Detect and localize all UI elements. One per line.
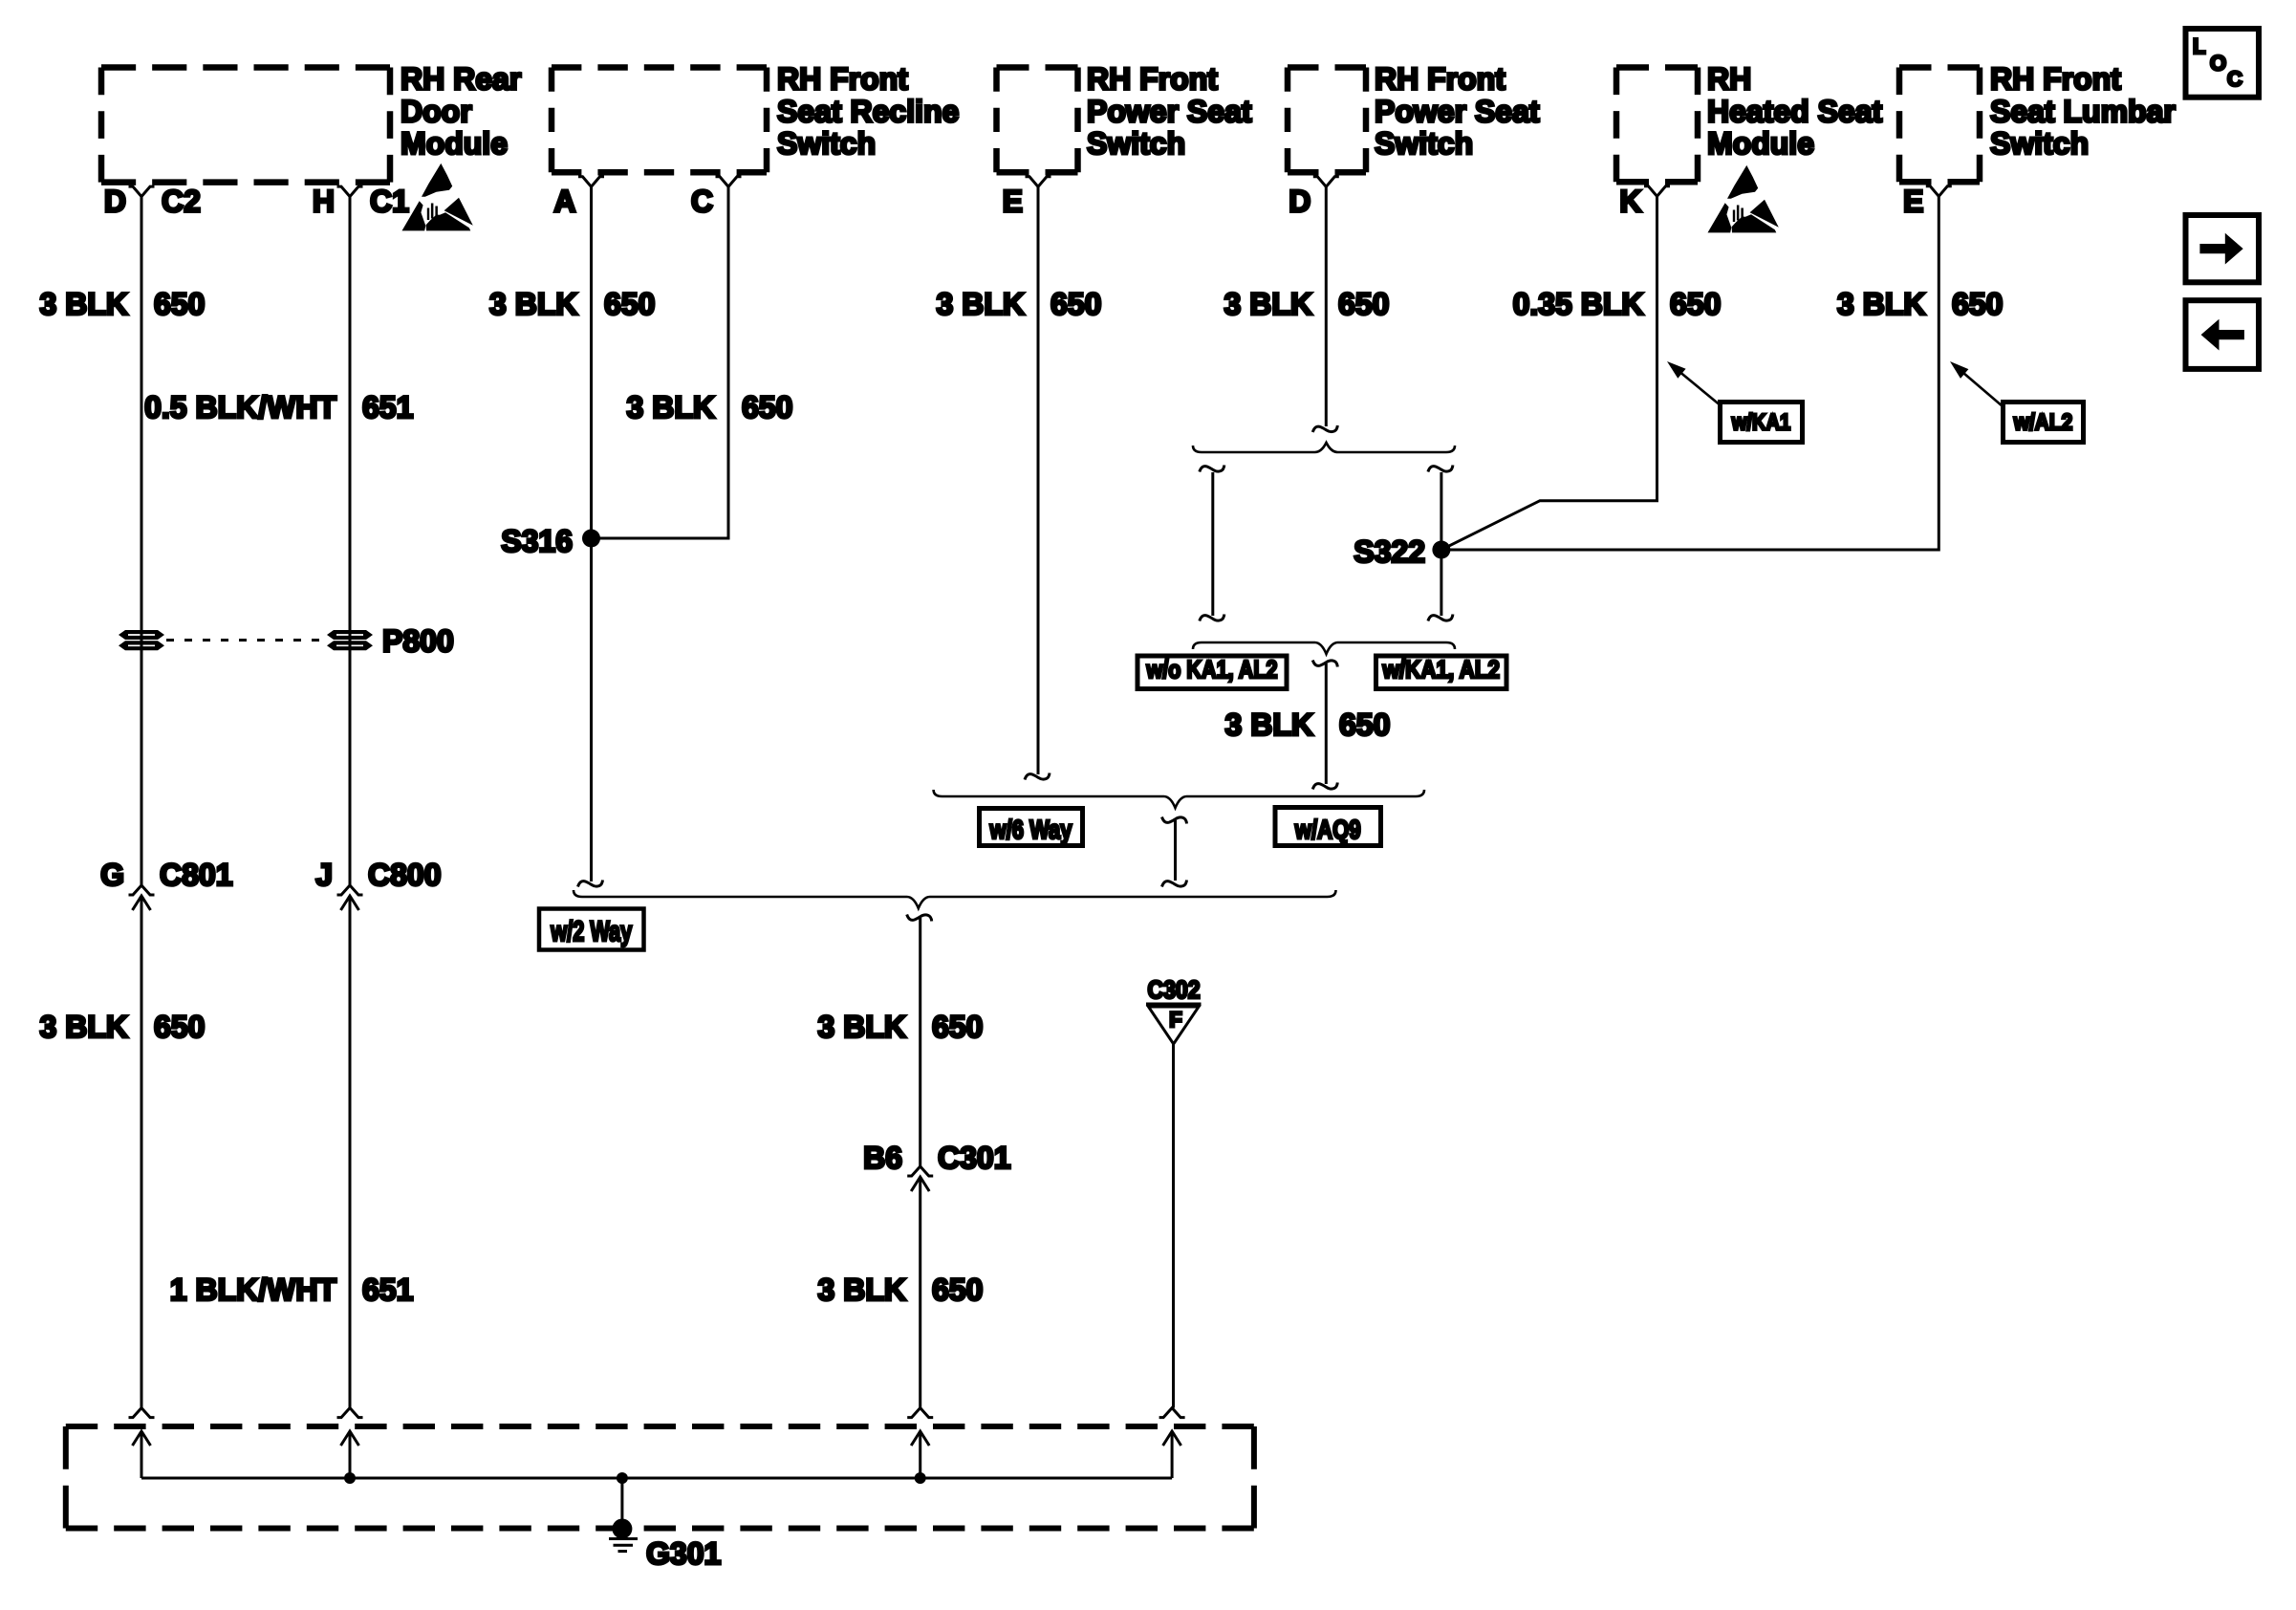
wirestub [1938, 195, 1940, 196]
branch wire 3 BLK 650 below option group x=1387.3 [1312, 661, 1337, 667]
main ground wire 3 BLK 650 x=962.7 [907, 915, 932, 922]
left arrow box [2186, 300, 2260, 369]
svg-text:B6: B6 [863, 1141, 902, 1175]
short option wire between braces x=1155 [1162, 817, 1187, 824]
svg-text:651: 651 [362, 1273, 413, 1307]
module box: RH Front Power Seat Switch (2) [1288, 64, 1366, 71]
junction dot ground stem [617, 1472, 628, 1484]
pin K fork at x=1733.5 [1644, 186, 1670, 197]
svg-text:RH Rear: RH Rear [401, 62, 521, 97]
svg-text:C2: C2 [162, 185, 201, 219]
ESD sensitive icon (left, beside RH Rear Door Module) [402, 163, 473, 231]
svg-text:w/KA1: w/KA1 [1731, 410, 1790, 436]
option bar right (w/KA1, AL2 path through S322) [1440, 472, 1442, 616]
svg-text:0.5 BLK/WHT: 0.5 BLK/WHT [144, 390, 336, 424]
wirestub [141, 196, 143, 197]
wire K heated seat (0.35 BLK 650) to splice S322 [1441, 194, 1657, 550]
pin C fork at x=762 [716, 177, 742, 187]
svg-text:A: A [553, 185, 575, 219]
pin E fork at x=2028.3 [1926, 186, 1952, 197]
connector C801 pin G [129, 885, 155, 895]
svg-text:Module: Module [1707, 126, 1814, 161]
wirestub [590, 185, 593, 186]
module box: RH Front Seat Recline Switch [552, 64, 767, 71]
brace above w/2 Way (joins A wire and option wire) [574, 890, 1336, 908]
svg-text:3 BLK: 3 BLK [1225, 707, 1313, 742]
svg-text:C: C [2227, 67, 2242, 91]
svg-text:RH: RH [1707, 62, 1751, 97]
connector C800 pin J [337, 885, 363, 895]
svg-text:G: G [100, 858, 124, 892]
ground stem [620, 1478, 623, 1526]
ground box entry connector at x=962.7 [907, 1408, 933, 1418]
svg-text:w/6 Way: w/6 Way [989, 815, 1072, 844]
svg-text:E: E [1903, 185, 1923, 219]
module box: RH Front Seat Lumbar Switch [1899, 64, 1980, 71]
option label w/KA1 [1721, 402, 1803, 443]
svg-text:650: 650 [1670, 287, 1721, 321]
wirestub [349, 196, 352, 197]
svg-text:F: F [1169, 1008, 1181, 1032]
wirestub [1325, 185, 1328, 186]
svg-text:650: 650 [1339, 707, 1390, 742]
svg-text:Power Seat: Power Seat [1375, 94, 1540, 128]
module box: RH Heated Seat Module [1616, 64, 1698, 71]
svg-text:RH Front: RH Front [1087, 62, 1218, 97]
connector C301 pin B6 [907, 1166, 933, 1176]
svg-text:S316: S316 [501, 524, 573, 558]
svg-text:3 BLK: 3 BLK [1837, 287, 1925, 321]
svg-text:RH Front: RH Front [777, 62, 908, 97]
svg-text:650: 650 [154, 1010, 205, 1044]
svg-text:RH Front: RH Front [1375, 62, 1505, 97]
svg-text:Switch: Switch [1375, 126, 1473, 161]
svg-text:650: 650 [742, 390, 792, 424]
svg-text:650: 650 [1051, 287, 1101, 321]
pin D fork at x=1387.3 [1313, 177, 1339, 187]
svg-text:3 BLK: 3 BLK [818, 1273, 906, 1307]
wire E lumbar (3 BLK 650) to splice S322 [1441, 194, 1939, 550]
svg-text:3 BLK: 3 BLK [489, 287, 577, 321]
module box: RH Front Power Seat Switch (1) [997, 64, 1078, 71]
junction dot main wire [915, 1472, 926, 1484]
svg-text:650: 650 [154, 287, 205, 321]
svg-text:C1: C1 [370, 185, 409, 219]
svg-text:C800: C800 [368, 858, 442, 892]
arrow from w/KA1 to K wire [1675, 367, 1722, 406]
svg-text:3 BLK: 3 BLK [627, 390, 715, 424]
svg-text:650: 650 [604, 287, 655, 321]
pin A fork at x=618.5 [578, 177, 604, 187]
svg-text:w/AQ9: w/AQ9 [1294, 815, 1361, 844]
svg-text:0.35 BLK: 0.35 BLK [1513, 287, 1644, 321]
svg-text:S322: S322 [1354, 534, 1425, 569]
ground bus [141, 1477, 1172, 1480]
wirestub [1037, 185, 1040, 186]
svg-text:650: 650 [932, 1010, 983, 1044]
svg-text:3 BLK: 3 BLK [937, 287, 1025, 321]
svg-text:650: 650 [1338, 287, 1389, 321]
svg-text:O: O [2210, 52, 2226, 76]
P800 pass-through grommet (left) [119, 630, 164, 650]
ground box entry connector at x=148 [129, 1408, 155, 1418]
splice S316 [582, 530, 600, 548]
svg-text:Switch: Switch [777, 126, 876, 161]
option bar left (w/o KA1, AL2 path) [1211, 472, 1214, 616]
pin D fork at x=148 [129, 186, 155, 197]
pin H fork at x=366 [337, 186, 363, 197]
svg-text:3 BLK: 3 BLK [1224, 287, 1312, 321]
LOC reference box [2186, 29, 2260, 98]
wirestub [727, 185, 730, 186]
option label w/AL2 [2004, 402, 2084, 443]
ground box entry connector at x=366 [337, 1408, 363, 1418]
svg-text:w/2 Way: w/2 Way [551, 916, 633, 947]
option brace bottom [1193, 642, 1455, 654]
svg-text:Module: Module [401, 126, 508, 161]
P800 pass-through grommet (right) [327, 630, 373, 650]
svg-text:C302: C302 [1148, 975, 1201, 1004]
wire D power seat switch 2 (3 BLK 650) x=1387.3 [1325, 185, 1328, 426]
option label w/2 Way [539, 909, 644, 950]
module box: RH Rear Door Module [101, 64, 390, 71]
svg-text:G301: G301 [646, 1536, 721, 1571]
wirestub [1656, 195, 1658, 196]
svg-text:P800: P800 [382, 624, 454, 659]
svg-text:650: 650 [1952, 287, 2003, 321]
wire from C302 to ground distribution [1172, 1044, 1175, 1408]
svg-text:3 BLK: 3 BLK [40, 1010, 128, 1044]
svg-text:E: E [1003, 185, 1023, 219]
svg-text:650: 650 [932, 1273, 983, 1307]
svg-text:3 BLK: 3 BLK [818, 1010, 906, 1044]
ground box entry connector at x=1226.1 [1159, 1408, 1185, 1418]
svg-text:Switch: Switch [1990, 126, 2089, 161]
svg-text:Door: Door [401, 94, 472, 128]
option label w/o KA1, AL2 [1137, 656, 1287, 689]
svg-text:K: K [1619, 185, 1641, 219]
wire C (3 BLK 650) x=762 to splice S316 [592, 185, 729, 538]
option brace top (below wire D of power seat switch 2) [1193, 443, 1455, 452]
svg-text:Power Seat: Power Seat [1087, 94, 1252, 128]
option label w/KA1, AL2 [1376, 656, 1507, 689]
arrow from w/AL2 to E lumbar wire [1958, 367, 2003, 406]
svg-text:Seat Lumbar: Seat Lumbar [1990, 94, 2176, 128]
ground distribution dashed box [66, 1424, 1254, 1429]
svg-text:D: D [104, 185, 126, 219]
svg-text:D: D [1289, 185, 1310, 219]
right arrow box [2186, 215, 2260, 282]
svg-text:L: L [2193, 34, 2205, 58]
ESD sensitive icon (right, beside RH Heated Seat Module) [1708, 165, 1779, 233]
pin E fork at x=1086 [1026, 177, 1051, 187]
svg-text:Switch: Switch [1087, 126, 1185, 161]
svg-text:w/KA1, AL2: w/KA1, AL2 [1382, 655, 1500, 684]
svg-text:3 BLK: 3 BLK [40, 287, 128, 321]
wire H/C1 (0.5 BLK/WHT 651) x=366 [349, 195, 352, 885]
option label w/AQ9 [1275, 808, 1381, 846]
svg-text:Seat Recline: Seat Recline [777, 94, 959, 128]
splice S322 [1432, 541, 1450, 559]
svg-text:C801: C801 [160, 858, 233, 892]
dashed tie line between P800 halves [166, 639, 325, 642]
svg-text:1 BLK/WHT: 1 BLK/WHT [170, 1273, 337, 1307]
wire A (3 BLK 650) x=618.5 [590, 185, 593, 881]
svg-text:w/AL2: w/AL2 [2013, 410, 2072, 436]
svg-text:C301: C301 [938, 1141, 1011, 1175]
svg-text:J: J [315, 858, 333, 892]
svg-text:w/o KA1, AL2: w/o KA1, AL2 [1146, 655, 1278, 684]
wire E power seat switch 1 (3 BLK 650) x=1086 [1037, 185, 1040, 774]
option label w/6 Way [980, 809, 1083, 846]
junction dot C800 wire [344, 1472, 356, 1484]
ground G301 symbol [612, 1519, 632, 1539]
svg-text:Heated Seat: Heated Seat [1707, 94, 1883, 128]
brace under E wire and branch wire (options w/6 Way / w/AQ9) [934, 790, 1424, 808]
svg-text:C: C [691, 185, 713, 219]
svg-text:651: 651 [362, 390, 413, 424]
wire D/C2 (3 BLK 650) x=148 [141, 195, 143, 885]
svg-text:H: H [313, 185, 335, 219]
svg-text:RH Front: RH Front [1990, 62, 2121, 97]
